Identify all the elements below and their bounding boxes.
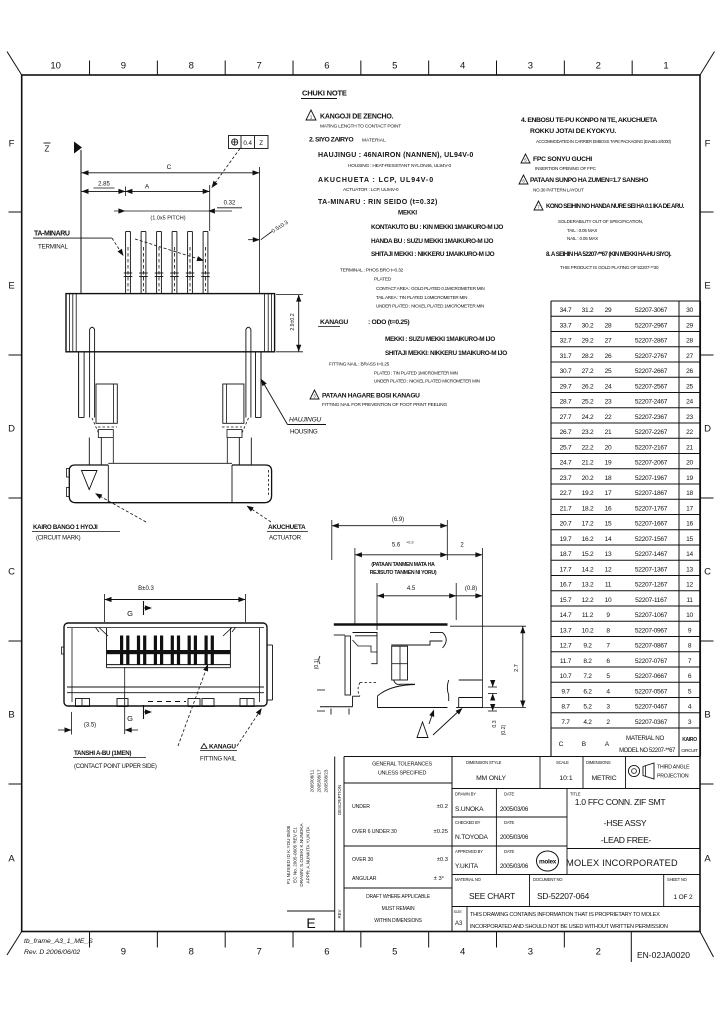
svg-text:A3: A3 [455,921,463,927]
front view: inner blocks [96,384,117,423]
note 3 fitting nail [310,390,319,399]
svg-text:CONTACT AREA : GOLD PLATED 0.: CONTACT AREA : GOLD PLATED 0.1MICROMETER… [376,286,484,291]
svg-text:52207-2667: 52207-2667 [635,368,668,375]
svg-text:(PATAAN TANMEN MATA HA: (PATAAN TANMEN MATA HA [371,562,435,568]
svg-text:THIS DRAWING CONTAINS INFORMAT: THIS DRAWING CONTAINS INFORMATION THAT I… [470,912,660,918]
svg-text:(CIRCUIT MARK): (CIRCUIT MARK) [36,536,81,542]
svg-text:ACTUATOR: ACTUATOR [269,535,302,542]
svg-text:52207-1867: 52207-1867 [635,490,668,497]
svg-text:7.7: 7.7 [561,719,570,726]
svg-text:MATERIAL NO: MATERIAL NO [626,735,664,742]
svg-text:2.85: 2.85 [98,182,110,188]
svg-text:(CONTACT POINT UPPER SIDE): (CONTACT POINT UPPER SIDE) [74,764,157,770]
svg-text:17: 17 [605,490,612,497]
svg-text:TA-MINARU : RIN SEIDO (t=0.32): TA-MINARU : RIN SEIDO (t=0.32) [318,199,438,206]
svg-text:52207-1967: 52207-1967 [635,475,668,482]
svg-text:14.2: 14.2 [582,566,594,573]
svg-text:25: 25 [686,383,693,390]
svg-text:(6.9): (6.9) [392,517,404,523]
svg-text:5: 5 [688,688,692,695]
svg-text:52207-2067: 52207-2067 [635,460,668,467]
svg-text:UNDER PLATED : NICKEL PLATED: UNDER PLATED : NICKEL PLATED MICROMETER … [374,379,480,384]
third angle projection symbol [628,765,639,776]
svg-text:E: E [306,915,315,931]
molex logo [537,851,559,871]
svg-text:52207-3067: 52207-3067 [635,307,668,314]
svg-text:3: 3 [528,947,533,958]
svg-text:20: 20 [605,444,612,451]
svg-text:7: 7 [606,643,610,650]
svg-text:27: 27 [686,353,693,360]
svg-text:SD-52207-064: SD-52207-064 [537,891,590,901]
svg-text:21: 21 [686,444,693,451]
front view: dim 2.9 right of band [276,294,303,296]
svg-text:D: D [8,424,15,435]
svg-text:SHEET NO: SHEET NO [667,877,688,882]
svg-text:11: 11 [605,582,612,589]
svg-text:52207-2267: 52207-2267 [635,429,668,436]
svg-text:52207-1067: 52207-1067 [635,612,668,619]
svg-text:DIMENSION STYLE: DIMENSION STYLE [466,760,502,765]
svg-text:11.7: 11.7 [560,658,572,665]
svg-text:2005/03/06: 2005/03/06 [500,806,529,813]
svg-text:52207-1667: 52207-1667 [635,521,668,528]
svg-text:DRAWN BY: DRAWN BY [455,792,476,797]
svg-text:DATE: DATE [504,820,514,825]
svg-text:±0.25: ±0.25 [434,829,448,835]
svg-text:52207-1467: 52207-1467 [635,551,668,558]
svg-text:0.5±0.3: 0.5±0.3 [271,220,290,235]
svg-text:22.7: 22.7 [560,490,572,497]
svg-text:52207-2467: 52207-2467 [635,399,668,406]
svg-text:SIZE: SIZE [454,910,463,914]
svg-text:E: E [8,281,14,292]
svg-text:30.2: 30.2 [582,322,594,329]
svg-text:CHECKED BY: CHECKED BY [455,820,481,825]
svg-text:6.2: 6.2 [583,688,592,695]
svg-text:Y.UKITA: Y.UKITA [455,863,479,870]
svg-text:7: 7 [537,205,540,210]
svg-text:±0.2: ±0.2 [437,804,448,810]
svg-text:2.9±0.2: 2.9±0.2 [290,313,296,330]
svg-text:52207-2967: 52207-2967 [635,322,668,329]
svg-text:D: D [704,424,711,435]
svg-text:10:1: 10:1 [559,775,572,782]
svg-text:ACCOMMODATED IN CARRIER EMBOSS: ACCOMMODATED IN CARRIER EMBOSS TAPE PACK… [536,139,672,144]
svg-text:PLATED : TIN PLATED 1MICROMET: PLATED : TIN PLATED 1MICROMETER MIN [374,371,458,376]
svg-text:F: F [705,139,711,150]
svg-text:MATERIAL: MATERIAL [362,138,386,144]
svg-text:10.7: 10.7 [560,673,572,680]
svg-text:PATAAN SUNPO HA ZUMEN=1.7 SANS: PATAAN SUNPO HA ZUMEN=1.7 SANSHO [530,177,648,184]
svg-text:1: 1 [310,115,313,120]
svg-text:MUST REMAIN: MUST REMAIN [382,906,415,912]
svg-text:6: 6 [606,658,610,665]
svg-text:16.7: 16.7 [560,582,572,589]
svg-text:TAIL AREA : TIN PLATED 1.0MIC: TAIL AREA : TIN PLATED 1.0MICROMETER MIN [376,295,467,300]
svg-text:KAIRO BANGO 1 HYOJI: KAIRO BANGO 1 HYOJI [33,524,98,531]
svg-text:DESCRIPTION: DESCRIPTION [337,785,342,815]
svg-text:A: A [145,184,150,191]
svg-text:TA-MINARU: TA-MINARU [34,231,70,238]
svg-text:3: 3 [313,394,316,399]
svg-text:±0.3: ±0.3 [437,857,448,863]
svg-text:13.7: 13.7 [560,627,572,634]
svg-text:14: 14 [605,536,612,543]
svg-text:KONO SEIHIN NO HANDA NURE SEI: KONO SEIHIN NO HANDA NURE SEI HA 0.1 IKA… [546,203,685,210]
svg-text:52207-1567: 52207-1567 [635,536,668,543]
svg-text:16.2: 16.2 [582,536,594,543]
svg-text:2: 2 [596,947,601,958]
svg-text:ROKKU JOTAI DE KYOKYU.: ROKKU JOTAI DE KYOKYU. [530,128,616,135]
parts chart table [550,301,552,757]
section view: right small dims 0.3 (0.2) [488,686,497,688]
front view: dim 0.5 leader [248,239,260,241]
svg-text:8: 8 [688,643,692,650]
svg-text:DOCUMENT NO: DOCUMENT NO [533,877,563,882]
sheet border frame [22,75,700,932]
svg-text:15: 15 [686,536,693,543]
svg-text:15: 15 [605,521,612,528]
svg-text:NAIL : 0.05 MAX: NAIL : 0.05 MAX [567,236,598,241]
svg-text:-HSE ASSY: -HSE ASSY [604,818,647,828]
svg-text:F: F [9,139,15,150]
svg-text:19: 19 [605,460,612,467]
svg-text:PATAAN HAGARE BOSI KANAGU: PATAAN HAGARE BOSI KANAGU [322,393,420,400]
svg-text:DATE: DATE [504,792,514,797]
svg-text:AKUCHUETA: AKUCHUETA [268,524,306,531]
svg-text:29: 29 [686,322,693,329]
svg-text:26.2: 26.2 [582,383,594,390]
title block: tolerance column [451,757,453,932]
svg-text:10.2: 10.2 [582,627,594,634]
section view: actuator right rounded end [443,633,447,649]
svg-text:HANDA BU : SUZU MEKKI 1MAIKURO: HANDA BU : SUZU MEKKI 1MAIKURO-M IJO [371,238,493,245]
svg-text:EC No. 2005-0605 REV E1: EC No. 2005-0605 REV E1 [293,827,298,883]
svg-text:4: 4 [460,61,465,72]
svg-text:(1.0x5 PITCH): (1.0x5 PITCH) [150,216,185,222]
svg-text:SHITAJI MEKKI : NIKKERU 1MAIKU: SHITAJI MEKKI : NIKKERU 1MAIKURO-M IJO [371,251,495,258]
svg-text:52207-1267: 52207-1267 [635,582,668,589]
svg-text:52207-0867: 52207-0867 [635,643,668,650]
svg-text:19: 19 [686,475,693,482]
svg-text:DIMENSIONS: DIMENSIONS [586,760,611,765]
svg-text:10: 10 [605,597,612,604]
svg-text:33.7: 33.7 [560,322,572,329]
svg-text:THIRD ANGLE: THIRD ANGLE [657,765,690,771]
svg-text:2: 2 [596,61,601,72]
svg-text:9: 9 [606,612,610,619]
svg-text:P1 NUSIED ID K.YOU 05/08: P1 NUSIED ID K.YOU 05/08 [286,825,291,884]
svg-text:17.2: 17.2 [582,521,594,528]
svg-text:C: C [167,164,172,171]
svg-text:UNDER PLATED : NICKEL PLATED: UNDER PLATED : NICKEL PLATED 1MICROMETER… [376,304,484,309]
svg-text:TAIL : 0.05 MAX: TAIL : 0.05 MAX [567,228,597,233]
svg-text:5: 5 [524,158,527,163]
svg-text:14: 14 [686,551,693,558]
svg-text:25.7: 25.7 [560,444,572,451]
svg-text:22: 22 [686,429,693,436]
svg-text:TITLE: TITLE [570,792,581,797]
svg-text:52207-1767: 52207-1767 [635,505,668,512]
svg-text:15.2: 15.2 [582,551,594,558]
svg-text:52207-0767: 52207-0767 [635,658,668,665]
svg-text:7.2: 7.2 [583,673,592,680]
svg-text:MEKKI : SUZU MEKKI 1MAIKURO-M: MEKKI : SUZU MEKKI 1MAIKURO-M IJO [385,336,495,343]
svg-text:10: 10 [686,612,693,619]
svg-text:SEE CHART: SEE CHART [469,891,515,901]
svg-text:7: 7 [256,61,261,72]
svg-text:(0.1): (0.1) [314,658,320,669]
svg-text:12: 12 [686,582,693,589]
svg-text:6: 6 [324,61,329,72]
svg-text:2: 2 [460,543,464,549]
svg-text:ANGULAR: ANGULAR [352,876,377,882]
svg-text:52207-1167: 52207-1167 [635,597,667,604]
svg-text:KONTAKUTO BU : KIN MEKKI 1MAIK: KONTAKUTO BU : KIN MEKKI 1MAIKURO-M IJO [371,224,503,231]
svg-text:29.7: 29.7 [560,383,572,390]
svg-text:28: 28 [686,338,693,345]
svg-text:34.7: 34.7 [560,307,572,314]
svg-text:12.7: 12.7 [560,643,572,650]
svg-text:2.7: 2.7 [514,664,520,672]
svg-text:10: 10 [50,61,61,72]
svg-text:N.TOYODA: N.TOYODA [455,834,489,841]
svg-text:REV: REV [337,909,342,918]
svg-text:GENERAL TOLERANCES: GENERAL TOLERANCES [372,762,432,768]
svg-text:6: 6 [324,947,329,958]
svg-text:52207-1367: 52207-1367 [635,566,668,573]
svg-text:FITTING NAIL FOR PREVENTION OF: FITTING NAIL FOR PREVENTION OF FOOT PRIN… [322,402,447,408]
front view: fitting nail arms [90,327,95,417]
svg-text:4.5: 4.5 [407,586,416,592]
zone ticks top/bottom [89,61,91,76]
svg-text:HAUJINGU: HAUJINGU [289,417,322,424]
svg-text:4. ENBOSU TE-PU KONPO NI TE, A: 4. ENBOSU TE-PU KONPO NI TE, AKUCHUETA [521,117,657,124]
svg-text:TERMINAL: TERMINAL [38,244,68,251]
svg-text:0.32: 0.32 [224,201,236,207]
front view: dim C overall [259,167,261,293]
svg-text:9: 9 [121,947,126,958]
svg-text:(0.2): (0.2) [501,724,507,735]
svg-text:28.7: 28.7 [560,399,572,406]
svg-text:27: 27 [605,338,612,345]
svg-text:11: 11 [686,597,693,604]
svg-text:2. SIYO ZAIRYO: 2. SIYO ZAIRYO [309,137,353,144]
svg-text:32.7: 32.7 [560,338,572,345]
svg-text:24.7: 24.7 [560,460,572,467]
svg-text:SCALE: SCALE [556,760,569,765]
svg-text:24: 24 [605,383,612,390]
svg-text:7: 7 [256,947,261,958]
svg-text:9: 9 [688,627,692,634]
svg-text:THIS PRODUCT IS GOLD PLATING O: THIS PRODUCT IS GOLD PLATING OF 52207-**… [560,265,659,270]
svg-text:21: 21 [605,429,612,436]
front view: latch details dashed [98,426,117,428]
front view: housing top band [66,294,275,352]
svg-text:23: 23 [605,399,612,406]
section view: right dim 2.7 [450,625,526,627]
front view: circuit mark triangle [82,471,98,490]
svg-text:26: 26 [605,353,612,360]
zone ticks left/right [9,211,22,213]
svg-text:TANSHI A-BU (1MEN): TANSHI A-BU (1MEN) [74,750,131,757]
section view: left small dims [319,656,320,664]
svg-text:17: 17 [686,505,693,512]
front view: 6 terminal pins [125,232,127,294]
svg-text:5: 5 [606,673,610,680]
svg-text:14.7: 14.7 [560,612,572,619]
svg-text:52207-0567: 52207-0567 [635,688,668,695]
svg-text:19.7: 19.7 [560,536,572,543]
svg-text:EN-02JA0020: EN-02JA0020 [637,950,690,960]
svg-text:KANGOJI DE ZENCHO.: KANGOJI DE ZENCHO. [320,114,394,121]
svg-text:23.7: 23.7 [560,475,572,482]
section view: bottom outline [320,706,353,708]
svg-text:26: 26 [686,368,693,375]
svg-text:± 3°: ± 3° [434,876,444,882]
svg-text:8.7: 8.7 [561,704,570,711]
svg-text:18: 18 [686,490,693,497]
svg-text:8: 8 [189,61,194,72]
svg-text:13.2: 13.2 [582,582,594,589]
svg-text:OVER 6 UNDER 30: OVER 6 UNDER 30 [352,829,397,835]
svg-text:UNLESS SPECIFIED: UNLESS SPECIFIED [378,771,427,777]
svg-text:ACTUATOR : LCP, UL94V-0: ACTUATOR : LCP, UL94V-0 [343,187,399,193]
svg-text:8. A SEIHIN HA 52207-**67 (KIN: 8. A SEIHIN HA 52207-**67 (KIN MEKKI HA-… [546,251,672,258]
svg-text:28: 28 [605,322,612,329]
top view: inner slot [67,627,264,629]
svg-text:A: A [605,741,610,748]
svg-text:APPROVED BY: APPROVED BY [455,849,483,854]
svg-text:12.2: 12.2 [582,597,594,604]
svg-text:4: 4 [460,947,465,958]
svg-text:Z: Z [259,140,263,147]
svg-text:18: 18 [605,475,612,482]
svg-text:FITTING NAIL: FITTING NAIL [200,757,237,763]
svg-text:INCORPORATED AND SHOULD NOT BE: INCORPORATED AND SHOULD NOT BE USED WITH… [470,924,668,930]
svg-text:1 OF 2: 1 OF 2 [674,894,693,901]
svg-text:3: 3 [528,61,533,72]
section view: FFC cable thick line [334,623,448,626]
svg-text:52207-0667: 52207-0667 [635,673,668,680]
section view: housing cross-section [334,634,345,636]
svg-text:Z: Z [45,145,50,154]
svg-text:REJISUTO TANMEN NI YORU): REJISUTO TANMEN NI YORU) [370,570,437,576]
svg-text:1.0 FFC CONN. ZIF SMT: 1.0 FFC CONN. ZIF SMT [575,797,667,807]
svg-text:28.2: 28.2 [582,353,594,360]
material/document/sheet row [452,874,700,876]
svg-text:CIRCUIT: CIRCUIT [681,748,698,753]
svg-text:FPC SONYU GUCHI: FPC SONYU GUCHI [533,156,592,163]
svg-text:MATING LENGTH TO CONTACT POINT: MATING LENGTH TO CONTACT POINT [320,124,401,130]
svg-text:21.7: 21.7 [560,505,572,512]
svg-text:3: 3 [606,704,610,711]
svg-text:1: 1 [663,61,668,72]
svg-text:4.2: 4.2 [583,719,592,726]
svg-text:2: 2 [606,719,610,726]
svg-text:18.7: 18.7 [560,551,572,558]
svg-text:MATERIAL NO: MATERIAL NO [455,877,482,882]
svg-text:AKUCHUETA : LCP, UL94V-0: AKUCHUETA : LCP, UL94V-0 [318,177,434,184]
svg-text:25: 25 [605,368,612,375]
svg-text:24: 24 [686,399,693,406]
svg-text:(0.8): (0.8) [465,586,477,592]
svg-text:52207-2767: 52207-2767 [635,353,668,360]
svg-text:5: 5 [392,947,397,958]
svg-text:3: 3 [688,719,692,726]
svg-text:G: G [127,609,133,618]
front view: housing walls below band [78,352,80,418]
svg-text:52207-0367: 52207-0367 [635,719,668,726]
svg-text:5: 5 [392,61,397,72]
svg-text:9.7: 9.7 [561,688,570,695]
svg-text:7: 7 [688,658,692,665]
svg-text:B: B [704,710,710,721]
svg-text:27.7: 27.7 [560,414,572,421]
svg-text:MEKKI: MEKKI [398,210,417,217]
section view: bottom small ticks [330,709,332,715]
svg-text:E: E [704,281,710,292]
svg-text:31.7: 31.7 [560,353,572,360]
svg-text:18.2: 18.2 [582,505,594,512]
svg-text:24.2: 24.2 [582,414,594,421]
front view: feature control frame 0.4 Z [229,136,269,149]
svg-text:METRIC: METRIC [592,775,617,782]
svg-text:5.6: 5.6 [392,543,401,549]
svg-text:MODEL NO 52207-**67: MODEL NO 52207-**67 [619,748,676,754]
svg-text:52207-2367: 52207-2367 [635,414,668,421]
svg-text:17.7: 17.7 [560,566,572,573]
section view: terminal hook [391,641,442,645]
svg-text:DRAFT WHERE APPLICABLE: DRAFT WHERE APPLICABLE [366,894,431,900]
svg-text:WITHIN DIMENSIONS: WITHIN DIMENSIONS [374,918,422,924]
svg-text:NO.30 PATTERN LAYOUT: NO.30 PATTERN LAYOUT [533,188,584,193]
svg-text:22.2: 22.2 [582,444,594,451]
svg-text:13: 13 [605,551,612,558]
top view: body lines [67,686,264,688]
svg-text:4: 4 [688,704,692,711]
svg-text:-LEAD FREE-: -LEAD FREE- [601,835,652,845]
svg-text:16: 16 [686,521,693,528]
svg-text:22: 22 [605,414,612,421]
front view: actuator bottom [108,462,232,464]
corner trim diagonals [7,52,22,76]
svg-text:APPR: A.NUNKITA Y.UKITA: APPR: A.NUNKITA Y.UKITA [306,826,311,884]
svg-text:S.UNOKA: S.UNOKA [455,806,484,813]
top view: solder tabs [76,699,90,707]
svg-text:HAUJINGU : 46NAIRON (NANNEN),: HAUJINGU : 46NAIRON (NANNEN), UL94V-0 [318,152,474,159]
svg-text:8.2: 8.2 [583,658,592,665]
svg-text:6: 6 [688,673,692,680]
note 1 mating length [306,110,316,120]
svg-text:A: A [8,854,15,865]
front view: legs [88,438,90,466]
svg-text:tb_frame_A3_1_ME_S: tb_frame_A3_1_ME_S [24,938,93,945]
svg-text:MOLEX INCORPORATED: MOLEX INCORPORATED [566,858,678,868]
front view: dim A [209,185,211,231]
svg-text:C: C [559,741,564,748]
svg-text:HOUSING: HOUSING [290,429,318,436]
svg-text:: ODO (t=0.25): : ODO (t=0.25) [368,319,409,326]
svg-text:B: B [582,741,587,748]
svg-text:27.2: 27.2 [582,368,594,375]
svg-text:52207-2567: 52207-2567 [635,383,668,390]
svg-text:52207-2167: 52207-2167 [635,444,668,451]
svg-text:2005/08/23: 2005/08/23 [324,769,329,792]
title block: revision strip [334,757,336,932]
section view: triangle note 5 marker [417,722,428,738]
